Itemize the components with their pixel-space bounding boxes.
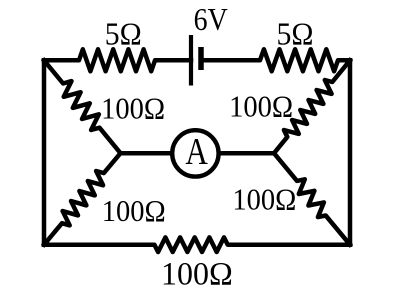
svg-text:6V: 6V	[194, 2, 228, 37]
svg-text:100Ω: 100Ω	[229, 89, 293, 123]
svg-text:5Ω: 5Ω	[277, 16, 314, 52]
svg-text:100Ω: 100Ω	[232, 182, 296, 216]
svg-text:100Ω: 100Ω	[102, 194, 166, 228]
svg-text:100Ω: 100Ω	[161, 256, 233, 292]
svg-text:5Ω: 5Ω	[105, 16, 142, 52]
svg-text:A: A	[185, 130, 208, 173]
svg-text:100Ω: 100Ω	[101, 91, 165, 125]
